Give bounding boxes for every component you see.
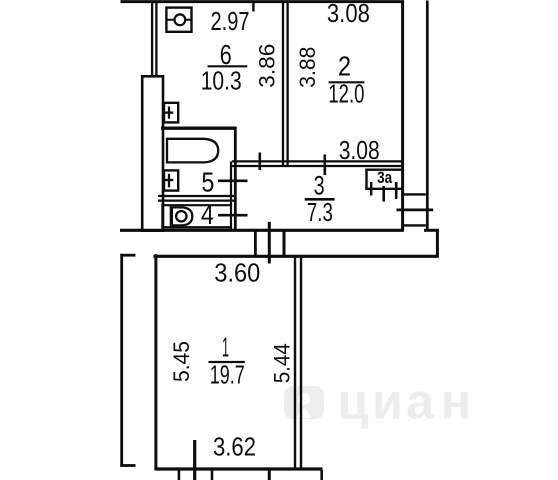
wall bottom left segment [120, 229, 143, 232]
room1 left wall [154, 254, 157, 469]
room4 box left [161, 204, 163, 228]
closet 3a bottom door line [365, 188, 403, 190]
svg-text:н: н [441, 374, 471, 430]
vent box 1 with plus [164, 103, 178, 123]
window line d [268, 471, 271, 480]
svg-text:3а: 3а [377, 169, 393, 187]
svg-text:2: 2 [338, 51, 351, 82]
svg-text:3.86: 3.86 [255, 44, 280, 88]
window line a [178, 471, 181, 480]
dim tick top [252, 1, 254, 12]
svg-text:3: 3 [314, 171, 325, 201]
svg-text:4: 4 [201, 199, 214, 230]
wall between rooms 6 and 2 [282, 2, 284, 167]
svg-text:а: а [406, 374, 435, 430]
corridor box left [283, 231, 286, 258]
wall left double upper [151, 1, 153, 77]
door tick room4 [218, 214, 248, 217]
room4 box top [162, 204, 232, 206]
step bottom right vertical [436, 229, 439, 257]
svg-text:3.60: 3.60 [214, 258, 260, 288]
svg-text:12.0: 12.0 [328, 79, 364, 109]
vent box 2 with plus [164, 170, 178, 190]
closet 3a top [365, 168, 402, 170]
svg-text:3.62: 3.62 [213, 431, 256, 461]
svg-text:10.3: 10.3 [201, 66, 242, 96]
svg-text:3.08: 3.08 [327, 0, 370, 28]
step bottom right horizontal [424, 229, 439, 232]
3a tick 2 [382, 186, 385, 202]
wall bottom main [142, 229, 404, 232]
room1 right wall double [294, 257, 296, 468]
room1 bottom wall [154, 467, 322, 470]
wall room5 top [161, 126, 236, 129]
window line e [320, 471, 323, 480]
door tick kitchen [258, 153, 261, 171]
svg-text:19.7: 19.7 [210, 359, 245, 389]
door tick room5 [218, 180, 248, 183]
wall outer right [426, 1, 429, 231]
door tick room2 [323, 155, 326, 176]
svg-text:ц: ц [338, 374, 369, 430]
lower block top wall [153, 255, 438, 258]
svg-text:и: и [372, 374, 403, 430]
window tick b [193, 440, 196, 480]
svg-text:5: 5 [201, 167, 214, 198]
svg-text:3.88: 3.88 [295, 47, 320, 88]
wall corridor left [230, 162, 232, 232]
wall corridor top double [232, 160, 403, 162]
svg-text:5.44: 5.44 [269, 343, 294, 383]
entry rung 2 [404, 224, 426, 226]
wall room5 right [234, 127, 237, 232]
window line c [211, 471, 214, 480]
neck tick long [268, 222, 271, 264]
entry rung 1 [404, 193, 426, 195]
closet 3a left [365, 169, 367, 190]
watermark logo (cian pin) [284, 386, 324, 419]
wall top outer [121, 0, 405, 3]
svg-text:3.08: 3.08 [339, 135, 380, 165]
svg-text:2.97: 2.97 [211, 6, 250, 36]
neck jamb left [254, 231, 257, 258]
wall room2 right [401, 1, 404, 231]
svg-text:7.3: 7.3 [307, 197, 333, 227]
wall between 5 and 4 double [158, 195, 234, 197]
room4 box bottom [162, 226, 232, 228]
left outer bracket [120, 254, 123, 467]
stove symbol [166, 8, 191, 32]
svg-text:5.45: 5.45 [169, 341, 194, 382]
entry rung tick wide [397, 208, 434, 211]
bathtub [167, 139, 218, 163]
svg-text:1: 1 [222, 332, 229, 363]
wc toilet [171, 205, 193, 227]
3a tick 3 [395, 182, 398, 199]
3a tick 1 [370, 182, 372, 196]
pier left wall [142, 76, 163, 230]
